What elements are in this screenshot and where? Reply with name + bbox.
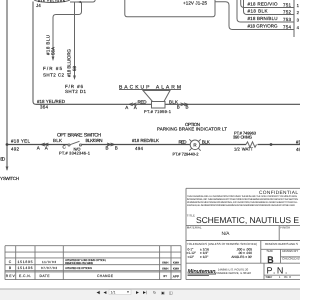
- svg-text:▣: ▣: [161, 291, 165, 295]
- svg-text:#18 BLU: #18 BLU: [45, 35, 50, 55]
- svg-text:APP: APP: [173, 275, 179, 279]
- svg-text:<12": <12": [188, 255, 195, 259]
- svg-text:CHECKED BY: CHECKED BY: [282, 256, 300, 260]
- svg-text:58: 58: [72, 65, 77, 71]
- svg-text:#18 BLK: #18 BLK: [248, 9, 268, 14]
- svg-text:FINISH: FINISH: [280, 226, 290, 230]
- svg-text:PARKING BRAKE INDICATOR LT: PARKING BRAKE INDICATOR LT: [157, 127, 227, 132]
- svg-text:ANGLES ± 30′: ANGLES ± 30′: [231, 255, 252, 259]
- svg-text:DATE: DATE: [40, 274, 51, 278]
- svg-text:▼: ▼: [127, 290, 130, 294]
- svg-text:A: A: [134, 105, 137, 110]
- svg-text:56A: 56A: [51, 47, 56, 55]
- svg-text:REV: REV: [6, 274, 16, 278]
- svg-text:SHEET: SHEET: [266, 275, 273, 279]
- svg-text:RED: RED: [179, 140, 188, 145]
- svg-text:1/2 WATT: 1/2 WATT: [234, 146, 253, 151]
- svg-text:SHT2 D1: SHT2 D1: [65, 89, 86, 94]
- svg-text:390 OHMS: 390 OHMS: [233, 135, 252, 140]
- svg-text:494: 494: [135, 146, 143, 151]
- svg-text:↻: ↻: [153, 291, 156, 295]
- svg-text:07/07/03: 07/07/03: [41, 266, 57, 270]
- svg-text:KMH: KMH: [162, 266, 168, 270]
- svg-text:BY: BY: [163, 274, 167, 278]
- svg-text:REMOVE BURRS AND S: REMOVE BURRS AND S: [265, 242, 298, 246]
- svg-text:◀: ◀: [104, 291, 107, 295]
- svg-text:KMH: KMH: [162, 260, 168, 264]
- svg-text:#18 BLU/ORG: #18 BLU/ORG: [66, 49, 71, 77]
- svg-text:REMOVE RED-YEL WIRE: REMOVE RED-YEL WIRE: [65, 262, 93, 265]
- svg-text:RED: RED: [138, 99, 148, 104]
- svg-text:PT.# 729440-2: PT.# 729440-2: [173, 151, 200, 156]
- svg-text:OF: OF: [284, 275, 288, 279]
- svg-text:BLK: BLK: [53, 138, 62, 143]
- svg-text:◀|: ◀|: [97, 291, 101, 295]
- svg-text:B: B: [267, 255, 273, 266]
- svg-text:CHANGE: CHANGE: [97, 274, 114, 278]
- svg-text:A: A: [37, 146, 40, 151]
- svg-text:SHT2 C2: SHT2 C2: [43, 73, 64, 78]
- svg-text:752: 752: [283, 9, 291, 14]
- svg-text:B: B: [186, 105, 189, 110]
- svg-text:YSWITCH: YSWITCH: [0, 176, 19, 181]
- svg-text:◫: ◫: [169, 291, 173, 295]
- svg-text:P.N.: P.N.: [267, 265, 289, 275]
- svg-text:J4: J4: [36, 3, 41, 8]
- svg-text:TITLE: TITLE: [187, 214, 195, 218]
- svg-text:PINGREE GROVE, IL 60140: PINGREE GROVE, IL 60140: [215, 271, 251, 275]
- svg-text:SIZE: SIZE: [267, 249, 274, 253]
- svg-text:▶|: ▶|: [143, 291, 147, 295]
- svg-text:#18 GRY/ORG: #18 GRY/ORG: [248, 24, 278, 29]
- svg-text:OPT BRAKE SWITCH: OPT BRAKE SWITCH: [57, 133, 101, 139]
- svg-text:#18 BRN/BLU: #18 BRN/BLU: [248, 16, 278, 21]
- svg-text:753: 753: [283, 17, 291, 22]
- svg-text:▶: ▶: [136, 291, 139, 295]
- svg-text:1/1: 1/1: [111, 290, 116, 294]
- svg-text:#18 RED/BLK: #18 RED/BLK: [132, 138, 159, 143]
- svg-text:E.C.N.: E.C.N.: [19, 274, 31, 278]
- svg-text:TOLERANCES (UNLESS OTHERWISE S: TOLERANCES (UNLESS OTHERWISE SPECIFIED): [187, 242, 257, 246]
- svg-text:BLK: BLK: [202, 140, 210, 145]
- svg-text:#18: #18: [296, 139, 300, 144]
- svg-text:N/A: N/A: [222, 231, 231, 237]
- svg-text:MATERIAL: MATERIAL: [187, 226, 202, 230]
- svg-text:ED: ED: [0, 156, 6, 161]
- svg-text:151406: 151406: [18, 266, 33, 270]
- svg-text:492: 492: [11, 147, 19, 152]
- svg-text:#18 YEL/GRN: #18 YEL/GRN: [38, 0, 66, 3]
- svg-text:#18 YEL/RED: #18 YEL/RED: [37, 99, 66, 104]
- svg-text:F/R #5: F/R #5: [43, 66, 62, 71]
- svg-text:B: B: [177, 105, 180, 110]
- svg-text:11/3/03: 11/3/03: [42, 260, 56, 264]
- svg-text:751: 751: [283, 2, 291, 7]
- svg-text:A: A: [125, 105, 128, 110]
- svg-text:KMH: KMH: [173, 260, 179, 264]
- svg-text:#18 YEL: #18 YEL: [11, 139, 30, 144]
- svg-text:SCHEMATIC, NAUTILUS E: SCHEMATIC, NAUTILUS E: [196, 215, 299, 225]
- svg-text:PT.# 3342346-1: PT.# 3342346-1: [59, 151, 91, 156]
- svg-text:#18 RED/VIO: #18 RED/VIO: [248, 2, 278, 7]
- svg-text:BLK: BLK: [169, 99, 178, 104]
- svg-text:± 1/2": ± 1/2": [200, 255, 208, 259]
- svg-text:BLK/GRN: BLK/GRN: [86, 138, 103, 143]
- svg-text:UPDATED CE OPTIONS: UPDATED CE OPTIONS: [65, 267, 92, 270]
- svg-text:DRAWN BY: DRAWN BY: [282, 249, 298, 253]
- svg-text:49: 49: [296, 147, 300, 152]
- svg-text:151895: 151895: [18, 260, 33, 264]
- svg-text:R: R: [193, 143, 196, 148]
- svg-text:KMH: KMH: [173, 266, 179, 270]
- svg-text:PT.# 71959-1: PT.# 71959-1: [144, 109, 172, 114]
- svg-text:A: A: [45, 146, 48, 151]
- svg-text:364: 364: [40, 105, 48, 110]
- svg-text:FURTHER, ALL INFORMATION CONTA: FURTHER, ALL INFORMATION CONTAINED HEREI…: [187, 204, 295, 207]
- svg-text:B: B: [106, 146, 109, 151]
- svg-text:+12V J1-25: +12V J1-25: [183, 1, 207, 6]
- svg-text:754: 754: [283, 24, 291, 29]
- svg-text:B: B: [115, 146, 118, 151]
